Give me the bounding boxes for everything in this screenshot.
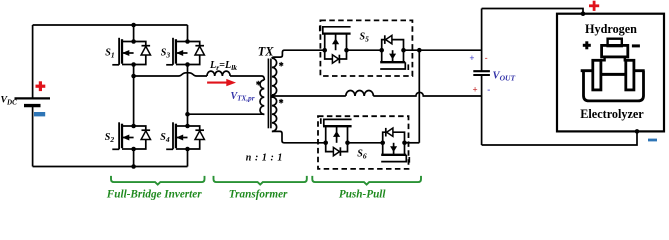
brace Transformer <box>214 176 307 185</box>
icon liquid bar <box>601 73 626 76</box>
wire: S1 source to node A <box>133 65 135 77</box>
box S5 <box>320 20 412 76</box>
wire: secondary bottom to S6 <box>272 131 326 142</box>
battery minus mark <box>34 112 45 116</box>
svg-text:Electrolyzer: Electrolyzer <box>580 107 644 121</box>
svg-text:S1: S1 <box>105 48 114 60</box>
dot mark secondary top <box>279 62 283 67</box>
wire: S1 drain leg <box>133 25 135 42</box>
svg-text:-: - <box>485 53 488 63</box>
wire: top rail <box>33 24 188 26</box>
capacitor C branch top <box>481 9 483 71</box>
transformer secondary top winding <box>272 58 277 95</box>
wire: node A to inductor Lr with hop over S3 leg <box>134 73 207 76</box>
svg-text:Push-Pull: Push-Pull <box>339 188 387 200</box>
wire: S3 drain leg <box>187 25 189 42</box>
wire: inductor to transformer primary <box>230 76 264 80</box>
svg-text:S4: S4 <box>160 132 170 144</box>
wire: S5 out to cap node <box>404 49 482 51</box>
svg-text:-: - <box>487 85 490 95</box>
svg-text:Transformer: Transformer <box>229 188 288 200</box>
electrolyzer icon <box>581 39 645 101</box>
transformer TX primary winding <box>260 80 264 114</box>
brace Full-Bridge Inverter <box>111 176 205 185</box>
transistor S5 left FET <box>320 26 351 64</box>
box S6 <box>318 116 409 169</box>
transformer core <box>268 59 271 129</box>
svg-text:+: + <box>469 53 474 63</box>
transistor S3 <box>166 38 204 67</box>
node: electrolyzer minus terminal <box>635 129 640 134</box>
svg-text:TX: TX <box>258 44 275 58</box>
svg-text:n : 1 : 1: n : 1 : 1 <box>246 152 283 163</box>
wire: S5 inner link <box>347 49 382 51</box>
wire: node A down to S2 drain <box>133 76 135 126</box>
icon right lead <box>625 57 634 60</box>
node A (left leg midpoint) <box>131 74 136 79</box>
wire: bottom rail <box>33 166 188 168</box>
brace Push-Pull <box>312 176 421 185</box>
svg-text:VOUT: VOUT <box>493 71 516 83</box>
wire: center tap to cap bottom with hop over tie <box>272 92 482 96</box>
capacitor C branch bottom <box>481 75 483 145</box>
svg-text:+: + <box>473 85 478 95</box>
dot mark secondary bottom <box>279 99 283 104</box>
electrolyzer plus mark red <box>589 1 599 11</box>
inductor Lr <box>207 71 230 76</box>
transistor S2 <box>112 122 150 151</box>
wire: S5/S6 tie vertical <box>418 50 420 143</box>
transistor S5 right FET <box>379 35 408 70</box>
transistor S1 <box>112 38 150 67</box>
svg-text:Full-Bridge Inverter: Full-Bridge Inverter <box>106 188 202 200</box>
node: electrolyzer plus terminal <box>581 11 586 16</box>
dot mark primary <box>256 81 260 86</box>
node B (right leg midpoint) <box>185 112 190 117</box>
wire: S4 source leg <box>187 149 189 167</box>
svg-text:VDC: VDC <box>1 95 18 107</box>
transistor S6 left FET <box>321 118 352 156</box>
wire: battery bottom to bottom rail <box>32 107 34 167</box>
svg-text:Lr=Llk: Lr=Llk <box>209 60 237 72</box>
battery VDC <box>15 98 51 105</box>
svg-text:S5: S5 <box>360 32 370 44</box>
icon right electrode <box>626 60 634 90</box>
icon battery cap <box>608 39 622 46</box>
wire: S3 source to node B <box>187 65 189 115</box>
wire: S2 source leg <box>133 149 135 167</box>
node: bottom rail / S2 source <box>131 164 136 169</box>
transformer secondary bottom winding <box>272 95 277 131</box>
capacitor C plates <box>473 71 490 75</box>
svg-text:S3: S3 <box>161 48 171 60</box>
node: top rail / S1 drain <box>131 23 136 28</box>
svg-text:VTX,pr: VTX,pr <box>231 91 255 103</box>
icon tank <box>581 71 645 101</box>
wire: node B to transformer primary bottom <box>188 113 265 115</box>
wire: battery top to top rail <box>32 25 34 98</box>
inductor (output choke) <box>346 90 374 96</box>
red current arrow VTX,pr <box>207 79 236 86</box>
wire: secondary top to S5 <box>272 50 325 58</box>
wire: S6 out up to tie <box>405 142 420 144</box>
icon battery body <box>602 45 628 57</box>
icon left lead <box>593 57 605 60</box>
battery plus mark <box>36 81 46 91</box>
wire: S6 inner link <box>348 142 383 144</box>
icon minus <box>632 44 640 47</box>
electrolyzer box <box>557 14 664 132</box>
wire: top output rail <box>482 9 583 14</box>
node: S5 output tee <box>417 48 422 53</box>
svg-text:Hydrogen: Hydrogen <box>585 22 637 36</box>
svg-text:S6: S6 <box>357 149 367 161</box>
icon left electrode <box>593 60 601 90</box>
transistor S6 right FET <box>380 128 409 163</box>
svg-text:S2: S2 <box>105 132 115 144</box>
wire: node B down to S4 drain <box>187 114 189 126</box>
icon plus <box>583 41 591 49</box>
electrolyzer minus mark blue <box>648 139 657 142</box>
transistor S4 <box>166 122 204 151</box>
wire: bottom output rail <box>482 131 637 145</box>
